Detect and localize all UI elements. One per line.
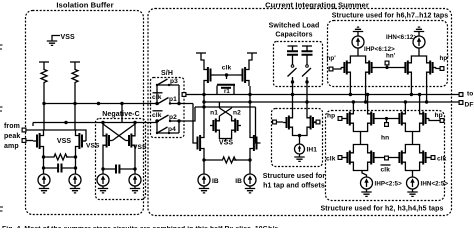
svg-text:DFE: DFE xyxy=(465,102,474,109)
svg-text:S/H: S/H xyxy=(161,70,173,77)
svg-text:n1: n1 xyxy=(210,110,218,117)
svg-text:Switched Load: Switched Load xyxy=(269,23,320,30)
svg-text:IHP<2:5>: IHP<2:5> xyxy=(375,181,403,188)
svg-text:clk: clk xyxy=(326,156,336,163)
svg-text:IH1: IH1 xyxy=(307,147,318,154)
svg-text:hp': hp' xyxy=(327,55,337,62)
svg-text:IB: IB xyxy=(212,178,219,185)
svg-text:hn: hn xyxy=(381,135,389,142)
svg-text:hp': hp' xyxy=(440,55,450,62)
svg-text:n2: n2 xyxy=(233,110,241,117)
svg-text:hn': hn' xyxy=(386,53,396,60)
svg-text:IHN<2:5>: IHN<2:5> xyxy=(421,181,449,188)
svg-text:VSS: VSS xyxy=(61,34,76,41)
svg-text:Fig. 4. Most of the summer sta: Fig. 4. Most of the summer stage circuit… xyxy=(2,226,278,229)
svg-text:clk: clk xyxy=(152,112,162,119)
svg-text:VSS: VSS xyxy=(219,140,234,147)
svg-text:peak: peak xyxy=(4,133,20,140)
svg-text:Structure used for h2, h3,h4,h: Structure used for h2, h3,h4,h5 taps xyxy=(320,206,443,213)
svg-text:VSS: VSS xyxy=(57,138,72,145)
svg-text:to: to xyxy=(467,91,473,98)
svg-text:p1: p1 xyxy=(169,96,177,103)
svg-text:clk: clk xyxy=(381,167,391,174)
svg-text:clk: clk xyxy=(437,156,447,163)
svg-text:hp: hp xyxy=(435,112,443,119)
svg-text:IHN<6:12>: IHN<6:12> xyxy=(386,34,417,41)
svg-text:Current Integrating Summer: Current Integrating Summer xyxy=(265,1,369,10)
svg-text:Capacitors: Capacitors xyxy=(275,32,312,39)
svg-text:VSS: VSS xyxy=(86,143,100,150)
svg-text:VSS: VSS xyxy=(133,144,147,151)
svg-text:IB: IB xyxy=(235,178,242,185)
svg-text:clk: clk xyxy=(222,65,232,72)
svg-text:p3: p3 xyxy=(170,78,178,85)
svg-text:clk: clk xyxy=(152,94,162,101)
svg-text:Isolation Buffer: Isolation Buffer xyxy=(56,1,113,10)
svg-text:hp: hp xyxy=(327,113,335,120)
svg-text:Structure used for h6,h7..h12: Structure used for h6,h7..h12 taps xyxy=(332,13,449,20)
svg-text:h1 tap and offsets: h1 tap and offsets xyxy=(263,183,325,190)
svg-text:amp: amp xyxy=(4,143,19,150)
svg-text:Negative-C: Negative-C xyxy=(102,111,140,118)
svg-text:from: from xyxy=(4,123,20,130)
svg-text:Structure used for: Structure used for xyxy=(263,173,326,180)
